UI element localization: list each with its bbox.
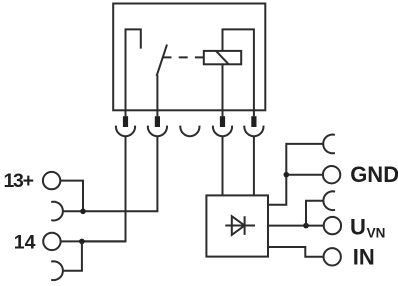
svg-text:IN: IN xyxy=(353,244,375,269)
svg-text:GND: GND xyxy=(350,162,398,187)
svg-text:14: 14 xyxy=(14,231,36,253)
svg-text:13+: 13+ xyxy=(4,170,34,192)
svg-text:VN: VN xyxy=(367,226,386,241)
svg-text:U: U xyxy=(350,215,366,240)
